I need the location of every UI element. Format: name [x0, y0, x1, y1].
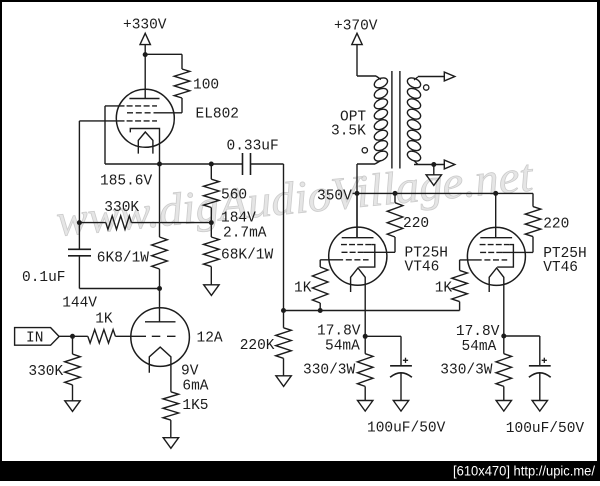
- svg-text:1K: 1K: [435, 281, 453, 297]
- wire cathode bus: [105, 163, 243, 165]
- V2 anode plate: [480, 237, 512, 239]
- svg-text:54mA: 54mA: [462, 339, 497, 355]
- node anode 2: [493, 191, 498, 196]
- ground 330K input: [65, 401, 80, 412]
- transformer T1 OPT primary winding: [373, 76, 389, 90]
- node +330V junction: [143, 52, 148, 57]
- EL802 grid g1 (dashed): [127, 120, 157, 122]
- output terminal bottom: [444, 160, 455, 169]
- resistor 220K: [283, 311, 285, 328]
- ground 1K5: [163, 438, 178, 449]
- svg-text:330/3W: 330/3W: [440, 363, 493, 379]
- svg-text:68K/1W: 68K/1W: [221, 248, 274, 264]
- resistor 1K #2: [452, 270, 468, 301]
- wire IN to R1K: [59, 335, 88, 337]
- wire to 0.1uF: [79, 288, 159, 290]
- wire V1 cathode to cap: [365, 335, 401, 337]
- svg-text:330/3W: 330/3W: [303, 363, 356, 379]
- svg-text:184V: 184V: [221, 211, 256, 227]
- capacitor 100uF/50V #1: [390, 365, 412, 367]
- wire to secondary ground: [433, 165, 435, 175]
- V1 beam plate tie: [359, 245, 375, 268]
- svg-text:17.8V: 17.8V: [456, 324, 500, 340]
- ground 68K: [204, 285, 219, 296]
- wire +370V to OPT primary: [357, 75, 376, 77]
- svg-text:185.6V: 185.6V: [100, 174, 153, 190]
- wire 0.33uF to grid bus: [283, 164, 285, 311]
- ground 220K: [276, 376, 291, 387]
- svg-text:100uF/50V: 100uF/50V: [367, 421, 446, 437]
- wire grid bus: [284, 310, 460, 312]
- plus sign #1: [403, 359, 408, 361]
- ground secondary: [426, 175, 441, 186]
- EL802 grid g3 (dashed): [127, 105, 157, 107]
- phase dot primary: [362, 148, 367, 153]
- svg-text:1K: 1K: [294, 281, 312, 297]
- svg-text:350V: 350V: [317, 189, 352, 205]
- node V2 cathode junction: [501, 334, 506, 339]
- svg-text:220K: 220K: [240, 338, 275, 354]
- wire V2 cathode to cap: [504, 335, 540, 337]
- svg-text:12A: 12A: [197, 331, 223, 347]
- svg-text:220: 220: [403, 216, 429, 232]
- svg-text:330K: 330K: [104, 200, 139, 216]
- svg-text:6mA: 6mA: [182, 379, 208, 395]
- V2 grid g3 (dashed): [480, 244, 510, 246]
- wire +330V to R 100: [145, 53, 182, 55]
- node V1 cathode junction: [363, 334, 368, 339]
- svg-text:100uF/50V: 100uF/50V: [506, 421, 585, 437]
- wire 350V bus: [353, 192, 534, 194]
- svg-text:100: 100: [193, 78, 219, 94]
- capacitor 0.33uF: [242, 153, 244, 175]
- 12A anode plate: [145, 321, 176, 323]
- ground 330/3W #1: [358, 401, 373, 412]
- svg-text:1K5: 1K5: [182, 398, 208, 414]
- wire OPT primary to 350V node: [375, 161, 381, 165]
- transformer core: [391, 71, 393, 169]
- resistor 330K feedback: [79, 222, 105, 224]
- wire g3 to cathode bus: [105, 105, 125, 107]
- svg-text:VT46: VT46: [543, 260, 578, 276]
- svg-text:220: 220: [543, 217, 569, 233]
- V1 grid g3 (dashed): [341, 244, 371, 246]
- power arrow +370V: [352, 33, 362, 44]
- svg-text:0.1uF: 0.1uF: [22, 270, 66, 286]
- V2 cathode: [489, 268, 504, 354]
- node cap-220K junction: [281, 308, 286, 313]
- phase dot secondary: [424, 85, 429, 90]
- svg-text:54mA: 54mA: [325, 339, 360, 355]
- svg-text:0.33uF: 0.33uF: [227, 139, 279, 155]
- wire secondary top out: [414, 77, 418, 80]
- EL802 anode plate: [129, 98, 159, 100]
- svg-text:144V: 144V: [62, 296, 97, 312]
- node R220-1 tap: [393, 191, 398, 196]
- wire R1K to 12A grid: [115, 335, 146, 337]
- V1 cathode: [351, 268, 366, 354]
- V1 grid g1 (dashed): [346, 259, 369, 261]
- output terminal top: [444, 72, 455, 81]
- wire V2 g1: [460, 259, 482, 261]
- resistor 330/3W #1: [357, 354, 373, 387]
- svg-text:560: 560: [221, 188, 247, 204]
- resistor 330/3W #2: [496, 354, 512, 387]
- node secondary ground junction: [431, 162, 436, 167]
- V1 grid g2 (dashed): [342, 251, 364, 253]
- tube U1 EL802 envelope: [116, 89, 174, 147]
- V2 grid g1 (dashed): [484, 259, 507, 261]
- svg-text:9V: 9V: [181, 364, 199, 380]
- resistor 220 #1: [394, 193, 396, 202]
- V1 anode lead: [356, 193, 358, 237]
- tube V1 PT25H envelope: [329, 227, 387, 285]
- resistor 1K grid: [88, 330, 116, 344]
- svg-text:VT46: VT46: [405, 260, 440, 276]
- node OPT-anode 1: [355, 191, 360, 196]
- wire R100 to screen grid: [181, 98, 183, 113]
- node cathode-560: [209, 162, 214, 167]
- plus sign #2: [542, 359, 547, 361]
- node 6K8-0.1uF junction: [157, 286, 162, 291]
- svg-text:+330V: +330V: [123, 18, 167, 34]
- node g1-330K junction: [77, 220, 82, 225]
- resistor 330K input: [72, 336, 74, 354]
- capacitor 100uF/50V #2: [529, 365, 551, 367]
- resistor 68K/1W: [210, 223, 212, 237]
- wire R220-2 to g2: [502, 251, 533, 253]
- node input junction: [70, 334, 75, 339]
- EL802 heater: [138, 132, 153, 154]
- node cathode-6K8: [157, 162, 162, 167]
- wire g1 left: [79, 120, 124, 122]
- svg-text:1K: 1K: [95, 312, 113, 328]
- svg-text:2.7mA: 2.7mA: [223, 226, 267, 242]
- svg-text:IN: IN: [26, 331, 43, 347]
- resistor 1K #1: [312, 267, 328, 303]
- ground 330/3W #2: [496, 401, 511, 412]
- wire secondary bottom out: [414, 161, 418, 165]
- V2 anode lead: [495, 193, 497, 237]
- resistor 100: [174, 69, 190, 98]
- tube U2 12A envelope: [131, 308, 190, 367]
- resistor 6K8/1W: [152, 237, 168, 269]
- EL802 anode lead: [144, 55, 146, 99]
- ground cap #1: [393, 401, 408, 412]
- wire V1 g1: [320, 259, 343, 261]
- transformer T1 secondary winding: [406, 76, 422, 90]
- power arrow +330V: [140, 33, 150, 44]
- V2 grid g2 (dashed): [480, 251, 502, 253]
- V1 anode plate: [342, 237, 374, 239]
- resistor 560: [210, 164, 212, 179]
- node 184V: [209, 220, 214, 225]
- svg-text:[610x470] http://upic.me/: [610x470] http://upic.me/: [453, 464, 595, 479]
- input tag IN: [15, 328, 60, 346]
- ground cap #2: [532, 401, 547, 412]
- V2 beam plate tie: [497, 245, 513, 268]
- svg-text:330K: 330K: [28, 364, 63, 380]
- wire 6K8 top: [159, 164, 161, 237]
- 12A cathode: [149, 347, 171, 392]
- border frame: [0, 0, 600, 2]
- resistor 1K5: [163, 392, 179, 420]
- capacitor 0.1uF: [68, 248, 91, 250]
- EL802 grid g2 (dashed): [127, 112, 152, 114]
- wire 6K8 to 12A anode: [159, 269, 161, 322]
- svg-text:17.8V: 17.8V: [317, 324, 361, 340]
- wire R220-1 to g2: [364, 251, 395, 253]
- footer bar: [0, 461, 600, 481]
- svg-text:+370V: +370V: [334, 19, 378, 35]
- EL802 cathode bracket: [130, 129, 159, 165]
- 12A grid (dashed): [152, 335, 176, 337]
- node 1K-1 junction: [318, 308, 323, 313]
- resistor 220 #2: [532, 193, 534, 206]
- tube V2 PT25H envelope: [467, 227, 525, 285]
- svg-text:EL802: EL802: [196, 107, 240, 123]
- svg-text:3.5K: 3.5K: [331, 124, 366, 140]
- svg-text:6K8/1W: 6K8/1W: [97, 251, 150, 267]
